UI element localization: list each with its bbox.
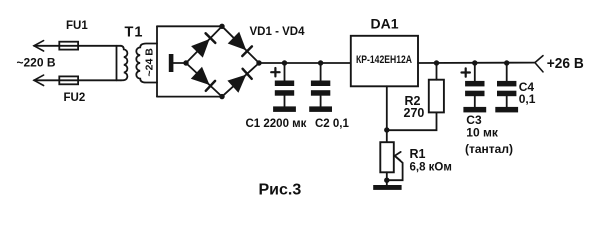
junction dot bridge top — [219, 24, 224, 29]
junction dot C3 — [472, 60, 477, 65]
bridge diamond edge L-B — [186, 63, 222, 97]
wire: bottom AC input — [34, 79, 121, 81]
diode VD2 — [228, 32, 252, 56]
capacitor C1 — [275, 63, 294, 106]
svg-text:R1: R1 — [410, 147, 426, 161]
svg-text:+26 В: +26 В — [547, 56, 584, 72]
ground (C1) — [273, 106, 296, 112]
ground (bridge negative) — [169, 54, 174, 72]
polarity + for C1 — [271, 68, 279, 76]
capacitor C4 — [497, 63, 516, 107]
svg-text:С2 0,1: С2 0,1 — [315, 118, 349, 130]
resistor R2 — [429, 80, 444, 113]
svg-text:FU2: FU2 — [64, 92, 86, 104]
wire: adj node to R2 bottom — [387, 112, 437, 130]
polarity + for C3 — [462, 68, 470, 76]
wire: top AC input — [34, 45, 121, 47]
junction dot bridge right — [256, 60, 261, 65]
svg-text:Рис.3: Рис.3 — [259, 182, 302, 199]
svg-text:10 мк: 10 мк — [466, 125, 499, 139]
capacitor C3 — [465, 63, 484, 107]
svg-text:DA1: DA1 — [371, 15, 399, 31]
capacitor C2 — [311, 63, 330, 106]
svg-text:С1 2200 мк: С1 2200 мк — [246, 118, 307, 130]
svg-text:~24 В: ~24 В — [144, 48, 156, 77]
transformer T1 primary winding — [121, 46, 127, 81]
diode VD3 — [191, 67, 215, 91]
junction dot C2 — [318, 60, 323, 65]
fuse FU2 — [59, 76, 78, 84]
ground (C2) — [309, 106, 332, 112]
regulator DA1 box — [351, 36, 418, 87]
wire: R1 bottom to ground — [386, 172, 388, 185]
R1 wiper arm — [387, 156, 403, 180]
wire: secondary bottom to bridge — [157, 96, 222, 98]
svg-text:6,8 кОм: 6,8 кОм — [410, 161, 452, 173]
junction dot bridge left — [183, 60, 188, 65]
svg-text:270: 270 — [404, 106, 425, 120]
wire: DA1 adj pin — [386, 86, 388, 130]
resistor R1 — [380, 142, 394, 172]
wire: R2 top to rail — [436, 63, 438, 80]
junction dot R2 tap — [434, 60, 439, 65]
junction dot C1 — [282, 60, 287, 65]
svg-text:~220 В: ~220 В — [17, 55, 56, 69]
R1 wiper arrowhead — [395, 152, 401, 161]
diode VD1 — [191, 33, 215, 57]
svg-text:VD1 - VD4: VD1 - VD4 — [250, 26, 306, 38]
svg-text:0,1: 0,1 — [519, 92, 536, 106]
svg-text:(тантал): (тантал) — [465, 142, 513, 156]
transformer T1 secondary winding — [136, 44, 157, 83]
transformer T1 primary left edge — [116, 46, 118, 81]
bridge diamond edge L-T — [186, 26, 222, 63]
junction dot R1 wiper — [384, 178, 389, 183]
junction dot C4 — [504, 60, 509, 65]
input terminal arrow bottom — [34, 75, 44, 85]
input terminal arrow top — [34, 41, 44, 51]
junction dot bridge bottom — [219, 94, 224, 99]
wire: R1 top — [386, 130, 388, 142]
ground (C4) — [495, 107, 518, 113]
svg-text:КР-142ЕН12А: КР-142ЕН12А — [356, 54, 412, 66]
bridge diamond edge T-R — [222, 26, 259, 63]
output terminal arrow — [535, 56, 543, 72]
fuse FU1 — [59, 42, 78, 50]
wire: main rail bridge to DA1 — [259, 62, 351, 64]
svg-text:FU1: FU1 — [66, 20, 88, 32]
svg-text:T1: T1 — [125, 24, 144, 40]
wire: bridge left to ground — [174, 62, 187, 64]
diode VD4 — [227, 69, 251, 93]
wire: rail DA1 to output — [418, 62, 535, 64]
wire: secondary right vertical — [156, 26, 158, 96]
wire: secondary top to bridge — [157, 25, 222, 27]
junction dot adj node — [384, 127, 389, 132]
ground (R1) — [373, 185, 401, 190]
ground (C3) — [463, 107, 486, 113]
bridge diamond edge B-R — [222, 63, 259, 97]
